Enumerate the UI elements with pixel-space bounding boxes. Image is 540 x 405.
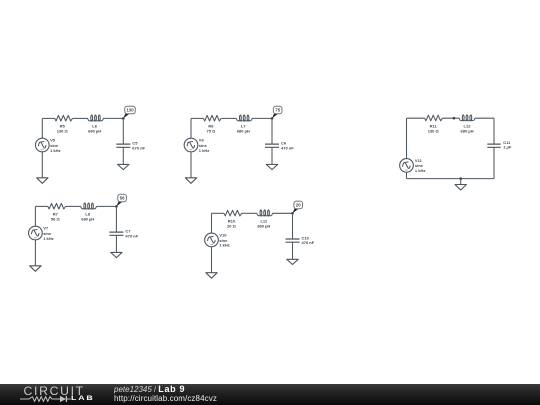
ground (under source) <box>37 178 48 184</box>
wire (bottom rail) <box>407 178 495 180</box>
wire (source bottom to bottom rail) <box>406 172 408 178</box>
node flag pointer for node 75 <box>272 111 278 118</box>
svg-text:1 kHz: 1 kHz <box>415 168 425 173</box>
junction dot at node 20 <box>291 212 294 215</box>
wire (left rail from top down to source V11) <box>406 118 408 158</box>
capacitor C10 <box>286 235 315 245</box>
resistor R10 (20 ohm) <box>224 210 242 228</box>
junction dot at node 130 <box>122 117 125 120</box>
wire (source bottom down to ground) <box>41 152 43 178</box>
ground (under capacitor) <box>287 259 298 264</box>
wire (node down to capacitor) <box>115 206 117 232</box>
voltage source V10 (sine 1 kHz) <box>205 233 230 248</box>
svg-text:L8: L8 <box>85 212 90 217</box>
voltage source V7 (sine 1 kHz) <box>29 226 54 241</box>
svg-text:680 µH: 680 µH <box>81 217 94 222</box>
svg-text:sine: sine <box>199 143 208 148</box>
voltage source V11 (sine 1 kHz) <box>400 158 426 173</box>
svg-text:R11: R11 <box>430 123 438 128</box>
inductor L8 (680 uH) <box>81 203 97 221</box>
svg-text:130 Ω: 130 Ω <box>428 128 440 133</box>
svg-text:sine: sine <box>50 143 59 148</box>
svg-text:1 kHz: 1 kHz <box>219 243 229 248</box>
svg-text:L11: L11 <box>260 219 267 224</box>
capacitor C5 <box>116 141 145 151</box>
svg-text:V5: V5 <box>50 138 56 143</box>
junction dot (between R11 and L12) <box>453 117 456 120</box>
wire (left vertical from source up to top rail) <box>190 118 192 138</box>
wire (inductor to right rail) <box>475 117 494 119</box>
capacitor C7 <box>109 229 138 239</box>
svg-text:C10: C10 <box>302 235 310 240</box>
junction dot at node 56 <box>115 205 118 208</box>
wire (node down to capacitor) <box>292 213 294 239</box>
junction dot (ground tap on bottom rail) <box>459 177 462 180</box>
svg-text:C7: C7 <box>125 229 131 234</box>
capacitor C11 (1 uF) <box>487 140 512 150</box>
CircuitLab logo: CIRCUIT wordmark <box>24 385 85 397</box>
svg-text:470 nF: 470 nF <box>302 240 315 245</box>
svg-text:20 Ω: 20 Ω <box>227 223 237 228</box>
wire (left vertical from source up to top rail) <box>34 206 36 226</box>
wire (left vertical from source up to top rail) <box>211 213 213 233</box>
svg-text:R10: R10 <box>228 219 236 224</box>
svg-text:sine: sine <box>43 231 52 236</box>
footer url text <box>114 395 217 403</box>
wire (resistor to inductor) <box>442 117 459 119</box>
wire (top rail lead to resistor R11) <box>407 117 425 119</box>
wire (resistor to inductor) <box>66 205 81 207</box>
resistor R11 (130 ohm) <box>425 115 443 133</box>
ground (under capacitor) <box>118 164 129 169</box>
wire (capacitor down to ground) <box>271 147 273 164</box>
wire (left vertical from source up to top rail) <box>41 118 43 138</box>
ground (under capacitor) <box>111 252 122 257</box>
svg-text:470 nF: 470 nF <box>281 145 294 150</box>
wire (right rail down to capacitor) <box>493 118 495 144</box>
svg-text:1 kHz: 1 kHz <box>199 148 209 153</box>
svg-text:1 kHz: 1 kHz <box>43 236 53 241</box>
voltage source V5 (sine 1 kHz) <box>35 138 60 153</box>
svg-text:R7: R7 <box>53 212 59 217</box>
svg-text:L7: L7 <box>241 124 246 129</box>
svg-text:75 Ω: 75 Ω <box>207 129 217 134</box>
wire (inductor to output node) <box>273 212 293 214</box>
svg-text:V6: V6 <box>199 138 205 143</box>
wire (resistor to inductor) <box>221 117 236 119</box>
svg-text:20: 20 <box>296 203 301 208</box>
wire (node down to capacitor) <box>122 118 124 144</box>
node flag pointer for node 20 <box>293 206 299 213</box>
voltage source V6 (sine 1 kHz) <box>184 138 209 153</box>
svg-text:sine: sine <box>415 163 424 168</box>
wire (top rail lead to resistor) <box>191 117 203 119</box>
wire (top rail lead to resistor) <box>212 212 224 214</box>
resistor R5 (130 ohm) <box>55 115 73 133</box>
wire (resistor to inductor) <box>242 212 257 214</box>
svg-text:130: 130 <box>126 108 134 113</box>
resistor R6 (75 ohm) <box>203 115 221 133</box>
junction dot at node 75 <box>271 117 274 120</box>
wire (ground stem) <box>460 179 462 185</box>
wire (inductor to output node) <box>103 117 123 119</box>
svg-text:680 µH: 680 µH <box>461 128 474 133</box>
wire (resistor to inductor) <box>73 117 88 119</box>
svg-text:130 Ω: 130 Ω <box>57 129 69 134</box>
resistor R7 (56 ohm) <box>48 203 66 221</box>
svg-text:1 µF: 1 µF <box>503 145 512 150</box>
ground (under source) <box>185 178 196 184</box>
ground (under capacitor) <box>266 164 277 169</box>
svg-text:670 nF: 670 nF <box>132 145 145 150</box>
footer bar <box>0 384 540 405</box>
wire (node down to capacitor) <box>271 118 273 144</box>
svg-text:V10: V10 <box>219 233 227 238</box>
svg-text:R5: R5 <box>60 124 66 129</box>
wire (inductor to output node) <box>252 117 272 119</box>
inductor L6 (680 uH) <box>88 115 104 133</box>
footer title text: pete12345 / Lab 9 <box>114 385 185 394</box>
inductor L11 (680 uH) <box>257 210 273 228</box>
ground (under source) <box>30 266 41 272</box>
wire (top rail lead to resistor) <box>42 117 54 119</box>
wire (capacitor down to bottom rail) <box>493 147 495 178</box>
CircuitLab logo: LAB wordmark <box>71 396 95 403</box>
svg-text:V7: V7 <box>43 226 49 231</box>
node flag pointer for node 130 <box>123 111 129 118</box>
svg-text:56 Ω: 56 Ω <box>51 217 61 222</box>
wire (inductor to output node) <box>96 205 116 207</box>
svg-text:sine: sine <box>219 238 228 243</box>
capacitor C6 <box>265 141 294 151</box>
svg-text:680 µH: 680 µH <box>88 129 101 134</box>
CircuitLab logo: resistor-diode squiggle <box>20 394 71 404</box>
inductor L12 (680 uH) <box>459 115 475 133</box>
svg-text:C5: C5 <box>132 141 138 146</box>
svg-text:L6: L6 <box>92 124 97 129</box>
node flag pointer for node 56 <box>116 199 122 206</box>
wire (capacitor down to ground) <box>122 147 124 164</box>
node label box "130" <box>125 106 136 114</box>
svg-text:75: 75 <box>275 108 280 113</box>
ground (on bottom rail) <box>455 185 466 191</box>
node label box "75" <box>273 106 282 114</box>
wire (top rail lead to resistor) <box>35 205 47 207</box>
wire (source bottom down to ground) <box>34 240 36 266</box>
svg-text:R6: R6 <box>208 124 214 129</box>
svg-text:470 nF: 470 nF <box>125 233 138 238</box>
wire (source bottom down to ground) <box>211 247 213 273</box>
wire (capacitor down to ground) <box>292 242 294 259</box>
svg-text:1 kHz: 1 kHz <box>50 148 60 153</box>
svg-text:C11: C11 <box>503 140 511 145</box>
svg-text:C6: C6 <box>281 141 287 146</box>
svg-text:V11: V11 <box>415 158 423 163</box>
svg-text:680 µH: 680 µH <box>237 129 250 134</box>
inductor L7 (680 uH) <box>236 115 252 133</box>
ground (under source) <box>206 273 217 279</box>
wire (source bottom down to ground) <box>190 152 192 178</box>
svg-text:680 µH: 680 µH <box>257 223 270 228</box>
wire (capacitor down to ground) <box>115 235 117 252</box>
node label box "56" <box>118 194 127 202</box>
svg-text:56: 56 <box>120 196 125 201</box>
node label box "20" <box>294 201 303 209</box>
svg-text:L12: L12 <box>464 123 472 128</box>
